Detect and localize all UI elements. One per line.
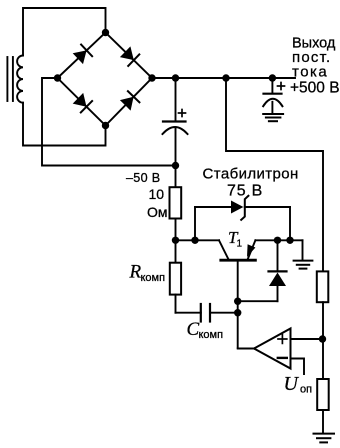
svg-text:+500 В: +500 В	[290, 80, 340, 97]
minus sign (op-amp input)	[278, 357, 287, 359]
svg-text:U: U	[284, 373, 300, 395]
node: emitter/zener	[286, 237, 293, 244]
plus sign of C1	[179, 110, 186, 117]
node at resistor/collector junction	[172, 237, 179, 244]
wire: bridge left node to -50V rail	[42, 78, 176, 166]
resistor R2 (lower divider)	[317, 379, 329, 433]
wire: transformer bottom lead to bridge bottom node	[23, 103, 106, 146]
ground (C2)	[263, 114, 283, 121]
capacitor Ccomp	[176, 304, 238, 322]
diode D4 (bottom-right arm, points to right node)	[120, 91, 139, 110]
resistor Rcomp	[170, 240, 181, 312]
bridge arm bottom-right	[106, 78, 153, 126]
svg-text:комп: комп	[199, 329, 224, 341]
svg-text:комп: комп	[141, 272, 166, 284]
node: bridge right	[148, 74, 155, 81]
svg-text:75 В: 75 В	[227, 182, 263, 199]
bridge arm top-left	[58, 33, 106, 79]
node: bridge bottom	[102, 122, 109, 129]
node: divider tap	[319, 335, 326, 342]
transistor T1 (PNP)	[219, 240, 255, 347]
capacitor C1 (filter, polarized)	[163, 78, 188, 166]
bridge arm bottom-left	[58, 78, 106, 126]
bridge arm top-right	[106, 33, 153, 79]
zener diode (Стабилитрон 75 В)	[195, 196, 290, 241]
node at zener anode	[191, 237, 198, 244]
node: bridge left	[54, 74, 61, 81]
svg-text:оп: оп	[300, 384, 312, 396]
node -50V	[172, 162, 179, 169]
diode VD2 (clamp, base to emitter)	[238, 240, 287, 301]
svg-text:1: 1	[237, 239, 243, 250]
ground (emitter)	[294, 240, 313, 268]
svg-text:Ом: Ом	[147, 204, 168, 220]
svg-text:тока: тока	[292, 64, 328, 81]
node: base/Ccomp junction	[234, 309, 241, 316]
transformer core	[7, 57, 12, 101]
transformer secondary winding	[17, 56, 23, 103]
wire: emitter to ground stub	[255, 239, 302, 241]
ground (bottom)	[314, 434, 335, 443]
node: bridge top	[102, 29, 109, 36]
wire: series branch from rail to divider	[226, 78, 323, 271]
svg-text:–50 В: –50 В	[126, 171, 160, 185]
wire: transformer top lead to top rail	[23, 8, 106, 56]
svg-text:Стабилитрон: Стабилитрон	[203, 165, 299, 182]
node on rail at filter cap	[172, 74, 179, 81]
wire: junction to zener/collector	[176, 239, 220, 241]
svg-text:10: 10	[149, 186, 165, 202]
wire: +500V output rail	[152, 77, 295, 79]
op-amp U1	[238, 329, 323, 375]
capacitor C2 (output, polarized)	[263, 78, 282, 113]
diode D1 (top-left arm, points to top node)	[73, 45, 92, 65]
diode D2 (top-right arm, points to right node)	[120, 46, 139, 66]
diode D3 (bottom-left arm, points to bottom node)	[73, 93, 92, 113]
node on rail at series branch	[222, 74, 229, 81]
node on rail at output cap	[269, 74, 276, 81]
resistor 10 Ohm	[170, 166, 182, 241]
node: emitter/diode	[274, 237, 281, 244]
resistor R1 (upper divider)	[317, 271, 329, 379]
plus sign of C2	[278, 83, 285, 90]
node: base/diode junction	[234, 298, 241, 305]
plus sign (op-amp input)	[278, 335, 287, 344]
